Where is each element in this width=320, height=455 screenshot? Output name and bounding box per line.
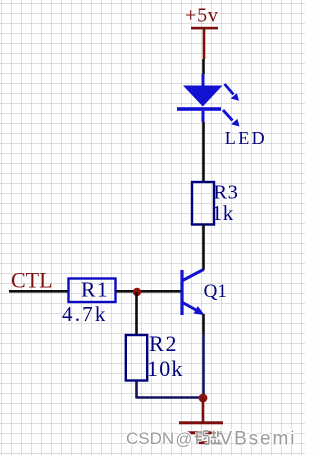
node junction ground bbox=[199, 394, 208, 403]
svg-text:R2: R2 bbox=[149, 331, 178, 356]
transistor Q1 emitter arrowhead bbox=[194, 306, 205, 315]
wire CTL to R1 bbox=[9, 290, 68, 293]
wire Q1 emitter pin bbox=[202, 314, 205, 333]
ground bar 2 bbox=[188, 431, 216, 434]
resistor R2 body bbox=[126, 335, 147, 381]
LED emission arrow 2 bbox=[223, 110, 233, 121]
wire corner to ground node bbox=[137, 396, 204, 399]
resistor R3 body bbox=[192, 182, 214, 225]
svg-text:LED: LED bbox=[225, 128, 267, 148]
wire emitter to ground node bbox=[202, 333, 205, 398]
ground bar 3 bbox=[197, 441, 210, 444]
svg-text:CTL: CTL bbox=[11, 268, 53, 293]
transistor Q1 collector stroke bbox=[183, 270, 204, 281]
svg-text:@: @ bbox=[176, 431, 193, 449]
watermark CSDN @ bbox=[126, 429, 296, 450]
LED cathode bar bbox=[177, 107, 221, 111]
transistor Q1 base bar bbox=[180, 270, 183, 315]
svg-text:4.7k: 4.7k bbox=[62, 302, 108, 326]
svg-text:CSDN: CSDN bbox=[126, 429, 174, 448]
wire R2 to corner bbox=[135, 381, 138, 399]
transistor Q1 emitter stroke bbox=[183, 303, 198, 311]
LED anode lead bbox=[202, 74, 205, 86]
svg-text:Q1: Q1 bbox=[204, 281, 227, 302]
power +5v pin bbox=[203, 29, 206, 59]
svg-text:R1: R1 bbox=[81, 278, 109, 302]
power +5v bar symbol bbox=[191, 27, 218, 30]
LED cathode lead bbox=[202, 111, 205, 122]
watermark glyph wei bbox=[195, 431, 210, 444]
LED triangle bbox=[183, 86, 223, 107]
svg-text:+5v: +5v bbox=[185, 5, 219, 27]
resistor R1 body bbox=[69, 279, 116, 303]
wire R1 to Q1 base bbox=[116, 290, 181, 293]
wire node to R2 bbox=[135, 292, 138, 335]
wire R3 to Q1 collector bbox=[202, 225, 205, 271]
LED emission arrow 1 bbox=[225, 84, 234, 95]
node junction base bbox=[133, 288, 141, 296]
watermark glyph bi bbox=[211, 431, 222, 445]
svg-text:1k: 1k bbox=[212, 201, 234, 225]
svg-text:VBsemi: VBsemi bbox=[220, 429, 297, 450]
wire LED to R3 bbox=[202, 122, 205, 182]
svg-text:10k: 10k bbox=[147, 356, 184, 381]
ground bar 1 bbox=[179, 421, 223, 424]
wire +5v to LED bbox=[202, 59, 205, 74]
ground pin bbox=[202, 398, 205, 422]
